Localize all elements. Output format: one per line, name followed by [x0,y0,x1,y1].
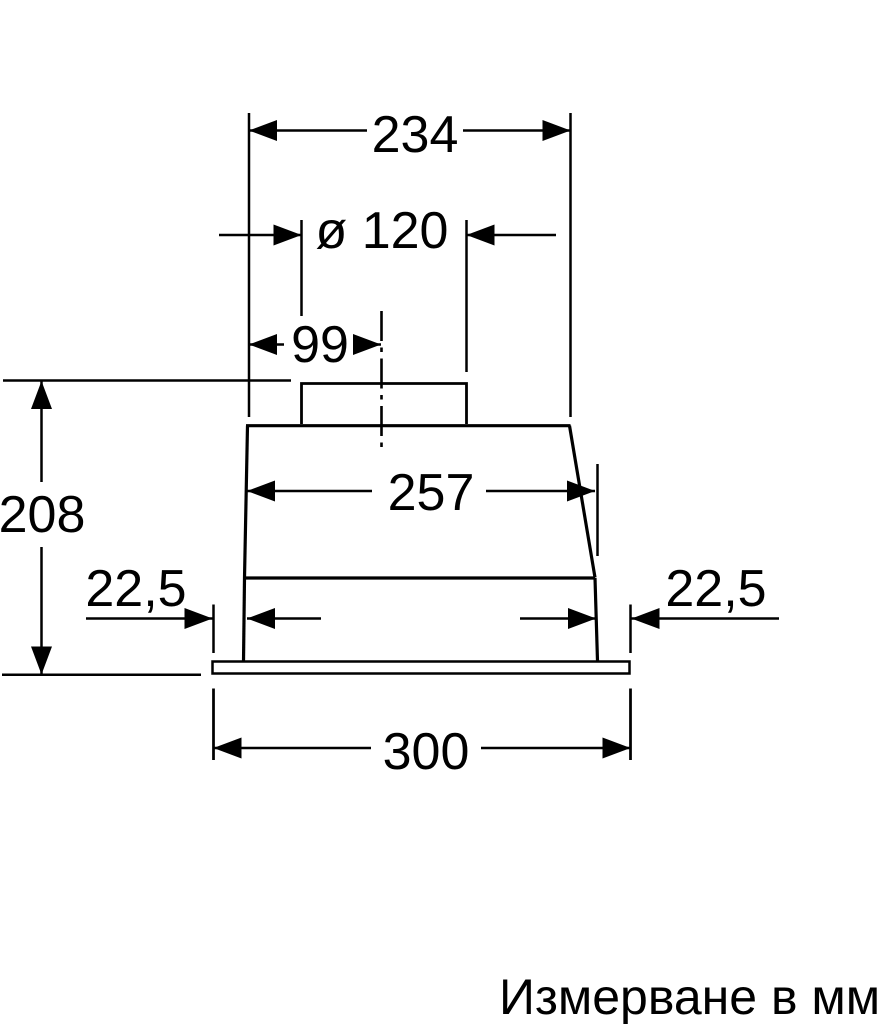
dim 99 arrow left [249,334,277,355]
hood body top line [246,424,571,427]
svg-text:22,5: 22,5 [665,560,766,618]
dim 208 arrow down [31,647,52,675]
dim 257 line [247,490,372,493]
dim 300 extension line left [212,689,215,761]
dim 120 right tail [467,234,557,237]
svg-text:257: 257 [388,464,475,522]
hood body left side [245,426,248,578]
dim 120 arrow right (points left) [467,225,495,246]
dim 22,5 left inner arrow (points left) [247,608,275,629]
dim 99 line [249,343,284,346]
dim 234 extension line left [248,113,251,417]
dim 234 arrow right [543,120,571,141]
dim 99 arrow right [353,334,381,355]
dim 234 extension line right [569,113,572,417]
dim 208 line [40,381,43,482]
center line (dash-dot) [380,311,383,447]
bottom flange [213,662,630,674]
dim 22,5 right outer arrow (points left) [632,608,660,629]
hood lower body left side [244,578,245,662]
hood body mid line [245,576,596,579]
svg-text:ø 120: ø 120 [316,202,449,260]
dim 120 extension line left [300,220,303,316]
svg-text:Измерване в мм: Измерване в мм [499,969,880,1024]
dim 257 arrow right [567,481,595,502]
dim 234 line [249,129,367,132]
hood lower body right side [595,578,598,661]
top reference line (spigot top level) [3,379,291,382]
dim 300 line [214,747,372,750]
dim 22,5 right outer line [632,617,780,620]
dim 257 arrow left [247,481,275,502]
dim 257 extension line right [596,464,599,556]
dim 208 arrow up [31,381,52,409]
dim 120 extension line right [465,220,468,372]
svg-text:22,5: 22,5 [85,560,186,618]
svg-text:234: 234 [372,106,459,164]
dim 22,5 left inner line [247,617,321,620]
dim 22,5 right inner arrow (points right) [568,608,596,629]
dim 22,5 right inner line [520,617,596,620]
dim 300 extension line right [629,689,632,761]
svg-text:208: 208 [0,486,85,544]
dim 300 arrow left [214,738,242,759]
duct spigot outline [302,384,467,425]
svg-text:99: 99 [291,316,349,374]
dim 120 left tail [219,234,302,237]
dim 22,5 left outer arrow (points right) [185,608,213,629]
dim 22,5 right extension line (flange edge) [629,605,632,654]
dim 234 arrow left [249,120,277,141]
dim 300 arrow right [603,738,631,759]
bottom reference line (flange bottom level) [2,674,201,677]
svg-text:300: 300 [383,723,470,781]
hood body right slanted side [570,426,596,578]
dim 120 arrow left (points right) [274,225,302,246]
dim 22,5 left extension line (flange edge) [212,605,215,654]
dim 22,5 left outer line [86,617,213,620]
